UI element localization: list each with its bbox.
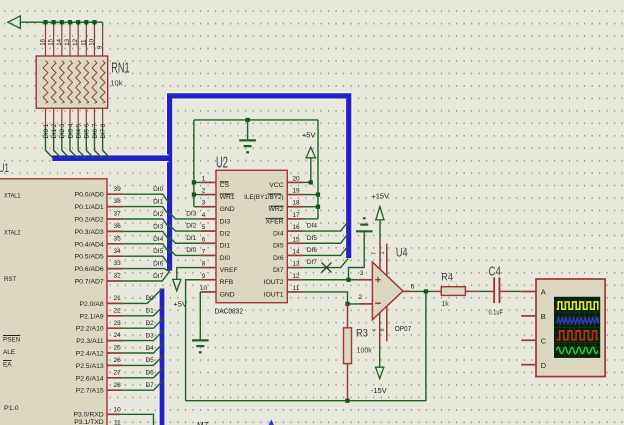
- svg-text:RN1: RN1: [111, 61, 129, 77]
- U1 pin 37 P0.2/AD2: [75, 211, 124, 224]
- waveform channel B (blue): [557, 318, 599, 324]
- ground (below U2): [192, 340, 209, 352]
- svg-text:16: 16: [292, 224, 300, 231]
- U2 pin 6 DI1: [200, 236, 230, 249]
- U2 pin 14 DI6: [273, 248, 303, 261]
- svg-text:D3: D3: [145, 332, 154, 339]
- svg-text:PSEN: PSEN: [3, 337, 20, 344]
- svg-text:3: 3: [202, 200, 206, 207]
- svg-text:R3: R3: [356, 327, 368, 339]
- value 1k (R4): [441, 301, 449, 308]
- wire U2 pin1 CS to left rail: [194, 181, 200, 183]
- svg-text:2: 2: [359, 294, 363, 301]
- svg-text:DI7: DI7: [273, 267, 284, 274]
- svg-text:33: 33: [113, 260, 121, 267]
- svg-text:DI3: DI3: [186, 211, 197, 218]
- svg-text:28: 28: [113, 382, 121, 389]
- svg-text:RST: RST: [4, 276, 16, 283]
- value 0.1uF (C4): [489, 310, 503, 317]
- wire U2 pin8 VREF: [177, 268, 201, 280]
- svg-text:17: 17: [292, 212, 300, 219]
- svg-text:32: 32: [113, 273, 121, 280]
- U2 pin 7 DI0: [200, 248, 230, 261]
- wire U2 pin18 WR2 to right rail: [303, 206, 318, 208]
- svg-text:10: 10: [200, 285, 208, 292]
- bus from RN1 to main bus (horizontal): [52, 154, 168, 162]
- wire U2 pin11 IOUT1 to op-amp pin2: [303, 292, 358, 304]
- U1 pin 35 P0.4/AD4: [75, 235, 124, 248]
- wire U2 pin6 DI1 to bus, net DI1: [169, 235, 200, 243]
- svg-text:37: 37: [113, 211, 121, 218]
- svg-text:IOUT1: IOUT1: [264, 291, 284, 298]
- wire P2.6 to bus, net D6: [123, 368, 163, 378]
- RN1 pin 7 DI6 (bottom) wire to bus: [92, 108, 102, 158]
- svg-text:2: 2: [202, 188, 206, 195]
- wire output to R4: [411, 290, 434, 292]
- label R4: [441, 271, 453, 283]
- svg-text:P2.6/A14: P2.6/A14: [76, 375, 104, 382]
- svg-text:8: 8: [380, 328, 386, 331]
- svg-text:P0.2/AD2: P0.2/AD2: [75, 217, 104, 224]
- U1 left pin name XTAL2: [4, 229, 21, 236]
- svg-text:EA: EA: [3, 362, 12, 369]
- svg-text:P2.1/A9: P2.1/A9: [80, 313, 104, 320]
- mcu U1 body: [0, 179, 107, 425]
- U2 pin 11 IOUT1: [264, 285, 303, 298]
- value 100k (R3): [357, 348, 373, 355]
- svg-text:7: 7: [372, 252, 378, 255]
- svg-text:M7: M7: [197, 421, 209, 425]
- wire P2.3 to bus, net D3: [123, 330, 163, 340]
- U1 pin 27 P2.6/A14: [76, 369, 124, 382]
- RN1 resistor element 7: [92, 61, 97, 104]
- RN1 pin 6 DI5 (bottom) wire to bus: [84, 108, 94, 158]
- svg-text:XTAL1: XTAL1: [4, 192, 21, 199]
- svg-text:DI5: DI5: [273, 243, 284, 250]
- wire P2.5 to bus, net D5: [123, 355, 163, 365]
- wire C4 to oscilloscope: [510, 290, 521, 292]
- wire U2 pin12 IOUT2 to op-amp pin3: [303, 279, 358, 281]
- power -15V: [371, 367, 387, 395]
- U2 pin 12 IOUT2: [264, 273, 303, 286]
- svg-text:1k: 1k: [441, 301, 449, 308]
- svg-text:P2.5/A13: P2.5/A13: [76, 363, 104, 370]
- svg-text:P0.5/AD5: P0.5/AD5: [75, 254, 104, 261]
- svg-text:34: 34: [113, 248, 121, 255]
- svg-text:23: 23: [113, 320, 121, 327]
- svg-text:D0: D0: [145, 295, 154, 302]
- svg-text:P2.3/A11: P2.3/A11: [76, 338, 104, 345]
- junction U2 pin1: [192, 180, 196, 184]
- node IOUT2/ground junction: [346, 278, 350, 282]
- svg-text:24: 24: [113, 332, 121, 339]
- wire right rail vertical: [317, 120, 319, 219]
- svg-text:XTAL2: XTAL2: [4, 229, 21, 236]
- wire U2 pin5 DI2 to bus, net DI2: [169, 223, 200, 231]
- RN1 pin 13 (top): [64, 20, 72, 56]
- svg-text:GND: GND: [220, 206, 235, 213]
- svg-text:C4: C4: [489, 263, 501, 278]
- svg-text:5: 5: [202, 224, 206, 231]
- label U1: [0, 161, 9, 175]
- wire U2 pin14 DI6 to bus, net DI6: [303, 246, 348, 255]
- svg-text:DI5 6: DI5 6: [84, 123, 91, 138]
- wire P0.4 to bus, net DI4: [123, 236, 169, 253]
- svg-text:39: 39: [113, 186, 121, 193]
- RN1 resistor element 4: [68, 61, 73, 104]
- svg-text:1: 1: [202, 175, 206, 182]
- wire RN1 top rail: [20, 21, 102, 23]
- waveform channel D (green sine): [557, 347, 598, 353]
- svg-text:13: 13: [64, 38, 71, 45]
- wire U2 pin20 VCC: [303, 181, 311, 183]
- RN1 resistor element 6: [84, 61, 89, 104]
- svg-text:D1: D1: [145, 308, 154, 315]
- U2 pin 15 DI5: [273, 236, 303, 249]
- wire U2 pin17 XFER to right rail: [303, 218, 318, 220]
- svg-text:1: 1: [380, 251, 386, 254]
- svg-text:D: D: [541, 361, 547, 370]
- svg-text:VREF: VREF: [220, 267, 238, 274]
- junction R3 bottom: [345, 399, 349, 403]
- U1 pin 24 P2.3/A11: [76, 332, 123, 345]
- U2 pin 16 DI4: [273, 224, 303, 237]
- svg-text:P0.3/AD3: P0.3/AD3: [75, 229, 104, 236]
- svg-text:DI2: DI2: [186, 223, 197, 230]
- U1 pin 36 P0.3/AD3: [75, 223, 124, 236]
- svg-text:IOUT2: IOUT2: [264, 279, 284, 286]
- U2 pin 20 VCC: [269, 175, 303, 188]
- U2 pin 10 GND: [200, 285, 235, 298]
- svg-text:9: 9: [97, 45, 104, 49]
- oscilloscope pin B stub: [521, 315, 536, 317]
- svg-text:P2.0/A8: P2.0/A8: [80, 301, 104, 308]
- RN1 pin 1 DI0 (bottom) wire to bus: [43, 108, 53, 158]
- svg-text:18: 18: [292, 200, 300, 207]
- svg-text:DI2: DI2: [153, 211, 164, 218]
- svg-text:P0.6/AD6: P0.6/AD6: [75, 266, 104, 273]
- U1 pin 21 P2.0/A8: [80, 295, 124, 308]
- wire top rail: [194, 119, 318, 121]
- svg-text:DI2 3: DI2 3: [59, 123, 66, 138]
- oscilloscope pin C stub: [521, 339, 536, 341]
- bus D0-D7 (lower vertical): [158, 289, 165, 425]
- svg-text:12: 12: [292, 273, 300, 280]
- svg-text:11: 11: [80, 39, 87, 46]
- svg-text:13: 13: [292, 261, 300, 268]
- resistor R3: [344, 304, 352, 401]
- clipped text fragment (bottom edge): [197, 421, 209, 425]
- svg-text:DI7: DI7: [307, 259, 318, 266]
- wire P2.2 to bus, net D2: [123, 318, 163, 328]
- svg-text:B: B: [541, 312, 546, 321]
- svg-text:P0.1/AD1: P0.1/AD1: [75, 204, 104, 211]
- U2 pin 19 ILE(BY1/BY2): [244, 188, 303, 201]
- svg-text:P0.0/AD0: P0.0/AD0: [75, 192, 104, 199]
- svg-text:15: 15: [48, 38, 55, 45]
- svg-text:U2: U2: [216, 155, 228, 172]
- bus DI0-DI7 main (left vertical, top rail, right vertical): [170, 96, 349, 271]
- label U4: [396, 247, 408, 259]
- svg-text:-15V: -15V: [371, 386, 387, 395]
- wire R4 to C4: [479, 290, 486, 292]
- wire P0.1 to bus, net DI1: [123, 199, 169, 216]
- svg-text:21: 21: [113, 295, 121, 302]
- U1 pin 32 P0.7/AD7: [75, 273, 124, 286]
- svg-text:15: 15: [292, 236, 300, 243]
- svg-text:6: 6: [411, 283, 415, 290]
- U2 pin 4 DI3: [200, 212, 230, 225]
- U1 pin 39 P0.0/AD0: [75, 186, 124, 199]
- U1 left pin name RST: [4, 276, 16, 283]
- op-amp pin7 V+ line: [372, 220, 380, 270]
- resistor network RN1 body: [36, 56, 108, 108]
- U1 pin 26 P2.5/A13: [76, 357, 124, 370]
- U2 pin 18 WR2: [268, 200, 303, 213]
- svg-text:DI3 4: DI3 4: [67, 123, 74, 138]
- svg-text:26: 26: [113, 357, 121, 364]
- RN1 resistor element 1: [43, 61, 48, 104]
- svg-text:11: 11: [293, 285, 300, 292]
- svg-text:OP07: OP07: [395, 326, 412, 333]
- junction output/feedback: [424, 289, 428, 293]
- wire P0.5 to bus, net DI5: [123, 248, 169, 265]
- terminal arrow (bus end, top-left): [8, 16, 21, 29]
- svg-text:U4: U4: [396, 247, 408, 259]
- RN1 pin 10 (top): [88, 20, 96, 56]
- svg-text:DI1: DI1: [220, 243, 231, 250]
- RN1 resistor element 2: [51, 61, 56, 104]
- svg-text:P0.4/AD4: P0.4/AD4: [75, 241, 104, 248]
- U2 pin 3 GND: [200, 200, 234, 213]
- U1 pin 28 P2.7/A15: [76, 382, 124, 395]
- U1 pin 23 P2.2/A10: [76, 320, 124, 333]
- svg-text:35: 35: [113, 235, 121, 242]
- svg-text:10: 10: [113, 407, 121, 414]
- svg-text:16: 16: [40, 38, 47, 45]
- svg-text:DI5: DI5: [153, 248, 164, 255]
- svg-text:DI0: DI0: [186, 247, 197, 254]
- op-amp - mark: [375, 302, 381, 304]
- svg-text:GND: GND: [220, 291, 235, 298]
- wire U2 pin16 DI4 to bus, net DI4: [303, 222, 348, 231]
- svg-text:P2.7/A15: P2.7/A15: [76, 388, 104, 395]
- oscilloscope screen: [554, 297, 600, 358]
- svg-text:DI6 7: DI6 7: [92, 123, 99, 138]
- label DAC0832: [215, 306, 244, 315]
- U1 left pin name EA: [3, 361, 12, 369]
- svg-text:DI5: DI5: [307, 235, 318, 242]
- wire P2.0 to bus, net D0: [123, 289, 162, 304]
- op-amp pin4 V- line: [372, 313, 380, 368]
- U2 pin 5 DI2: [200, 224, 230, 237]
- RN1 pin 12 (top): [72, 20, 80, 56]
- svg-text:ALE: ALE: [3, 349, 16, 356]
- U1 pin 33 P0.6/AD6: [75, 260, 124, 273]
- svg-text:P2.2/A10: P2.2/A10: [76, 326, 104, 333]
- svg-text:10k: 10k: [110, 78, 122, 87]
- U1 left pin name P1.0: [4, 405, 19, 412]
- oscilloscope body: [536, 279, 605, 377]
- junction R3 top: [345, 302, 349, 306]
- svg-text:8: 8: [202, 261, 206, 268]
- svg-text:P1.0: P1.0: [4, 405, 19, 412]
- svg-text:RFB: RFB: [220, 279, 234, 286]
- resistor R4: [434, 287, 479, 296]
- dac U2 body: [216, 170, 287, 302]
- svg-text:D6: D6: [145, 370, 154, 377]
- U2 pin 2 WR1: [200, 188, 235, 201]
- svg-text:3: 3: [360, 270, 364, 277]
- wire RFB feedback (pin9 down, along bottom, up to output): [186, 280, 426, 401]
- svg-text:DI1: DI1: [186, 235, 197, 242]
- wire U2 pin19 ILE to right rail: [303, 194, 318, 196]
- svg-text:R4: R4: [441, 271, 453, 283]
- svg-text:A: A: [541, 288, 546, 297]
- svg-text:25: 25: [113, 345, 121, 352]
- op-amp pin3 stub: [358, 270, 372, 280]
- junction pin19 rail: [316, 192, 320, 196]
- U1 pin 38 P0.1/AD1: [75, 198, 124, 211]
- RN1 pin 5 DI4 (bottom) wire to bus: [76, 108, 86, 158]
- wire U2 pin4 DI3 to bus, net DI3: [169, 211, 200, 219]
- wire P0.2 to bus, net DI2: [123, 211, 169, 228]
- U1 left pin name ALE: [3, 349, 16, 356]
- RN1 pin 14 (top): [56, 20, 64, 56]
- svg-text:+15V: +15V: [371, 191, 389, 200]
- op-amp pin8 line: [380, 244, 387, 276]
- RN1 pin 8 DI7 (bottom) wire to bus: [100, 108, 110, 158]
- RN1 pin 11 (top): [80, 20, 88, 56]
- svg-text:U1: U1: [0, 161, 9, 175]
- svg-text:D4: D4: [145, 345, 154, 352]
- ground (top, on control rail): [239, 120, 256, 152]
- svg-text:9: 9: [202, 273, 206, 280]
- U1 pin 34 P0.5/AD5: [75, 248, 124, 261]
- svg-text:DI1 2: DI1 2: [51, 123, 58, 138]
- oscilloscope pin D stub: [521, 364, 536, 366]
- clipped blue probe marker (bottom edge): [268, 419, 274, 425]
- svg-text:DAC0832: DAC0832: [215, 306, 244, 315]
- label RN1: [111, 61, 129, 77]
- oscilloscope pin A stub: [521, 291, 536, 293]
- svg-text:DI3: DI3: [220, 218, 231, 225]
- power +5V (VCC): [302, 130, 316, 182]
- svg-text:14: 14: [56, 38, 63, 45]
- svg-text:D5: D5: [145, 357, 154, 364]
- svg-text:DI4 5: DI4 5: [76, 123, 83, 138]
- power +5V (VREF, pointing down): [173, 279, 187, 308]
- capacitor C4: [487, 277, 511, 303]
- wire U2 pin10 GND down: [199, 292, 201, 340]
- op-amp pin1 line: [380, 306, 387, 341]
- cross mark on DI7 wire: [322, 263, 332, 273]
- op-amp pin2 stub: [358, 294, 372, 304]
- wire P2.1 to bus, net D1: [123, 306, 163, 316]
- ground (inverted, above op-amp) and wire jog: [349, 218, 373, 280]
- svg-text:D2: D2: [145, 320, 154, 327]
- value 10k (RN1): [110, 78, 122, 87]
- svg-text:20: 20: [292, 175, 300, 182]
- svg-text:P3.1/TXD: P3.1/TXD: [74, 419, 104, 425]
- svg-text:DI1: DI1: [153, 199, 164, 206]
- wire P0.0 to bus, net DI0: [123, 186, 169, 203]
- svg-text:DI7: DI7: [153, 273, 164, 280]
- U2 pin 9 RFB: [200, 273, 233, 286]
- svg-text:4: 4: [372, 329, 378, 332]
- svg-text:DI4: DI4: [307, 223, 318, 230]
- RN1 resistor element 8: [100, 61, 105, 104]
- svg-text:14: 14: [292, 248, 300, 255]
- RN1 pin 4 DI3 (bottom) wire to bus: [67, 108, 77, 158]
- wire P3.0/RXD down: [120, 414, 154, 425]
- svg-text:VCC: VCC: [269, 182, 283, 189]
- U2 pin 8 VREF: [200, 261, 237, 274]
- svg-text:22: 22: [113, 307, 121, 314]
- svg-text:DI2: DI2: [220, 230, 231, 237]
- svg-text:ILE(BY1/BY2): ILE(BY1/BY2): [244, 194, 284, 201]
- U1 pin 22 P2.1/A9: [80, 307, 124, 320]
- RN1 resistor element 5: [76, 61, 81, 104]
- svg-text:4: 4: [202, 212, 206, 219]
- RN1 pin 3 DI2 (bottom) wire to bus: [59, 108, 69, 158]
- svg-text:27: 27: [113, 369, 121, 376]
- svg-text:P2.4/A12: P2.4/A12: [76, 351, 104, 358]
- svg-text:+5V: +5V: [302, 130, 316, 139]
- svg-text:0.1uF: 0.1uF: [489, 310, 503, 317]
- svg-text:DI0: DI0: [153, 186, 164, 193]
- svg-text:7: 7: [202, 248, 206, 255]
- svg-text:P0.7/AD7: P0.7/AD7: [75, 279, 104, 286]
- label R3: [356, 327, 368, 339]
- op-amp + mark: [375, 277, 381, 283]
- RN1 resistor element 3: [59, 61, 64, 104]
- svg-text:D7: D7: [145, 382, 154, 389]
- svg-text:6: 6: [202, 236, 206, 243]
- svg-text:DI7 8: DI7 8: [100, 123, 107, 138]
- label U2: [216, 155, 228, 172]
- svg-text:DI3: DI3: [153, 223, 164, 230]
- oscilloscope channel letters: [541, 288, 547, 370]
- U1 pin 25 P2.4/A12: [76, 345, 124, 358]
- svg-text:DI0 1: DI0 1: [43, 123, 50, 138]
- wire U2 pin13 DI7 to bus, net DI7: [303, 259, 348, 268]
- label C4: [489, 263, 501, 278]
- svg-text:WR2: WR2: [268, 206, 283, 213]
- svg-text:12: 12: [72, 38, 79, 45]
- svg-text:19: 19: [292, 188, 300, 195]
- svg-text:XFER: XFER: [265, 218, 283, 225]
- svg-text:11: 11: [114, 419, 121, 425]
- junction ground tap: [246, 118, 250, 122]
- wire P0.7 to bus, net DI7: [123, 271, 169, 281]
- svg-text:P3.0/RXD: P3.0/RXD: [73, 411, 103, 418]
- label OP07: [395, 326, 412, 333]
- U1 left pin name PSEN: [3, 336, 20, 344]
- svg-text:10: 10: [88, 38, 95, 45]
- svg-text:38: 38: [113, 198, 121, 205]
- wire P0.3 to bus, net DI3: [123, 223, 169, 240]
- svg-text:DI6: DI6: [153, 261, 164, 268]
- RN1 pin 2 DI1 (bottom) wire to bus: [51, 108, 61, 158]
- U1 left pin name XTAL1: [4, 192, 21, 199]
- RN1 pin 9 (top): [97, 22, 104, 56]
- U2 pin 13 DI7: [273, 261, 303, 274]
- svg-text:C: C: [541, 336, 547, 345]
- power +15V: [371, 191, 389, 220]
- op-amp pin6 output stub: [403, 283, 415, 291]
- waveform channel C (red square): [557, 331, 599, 340]
